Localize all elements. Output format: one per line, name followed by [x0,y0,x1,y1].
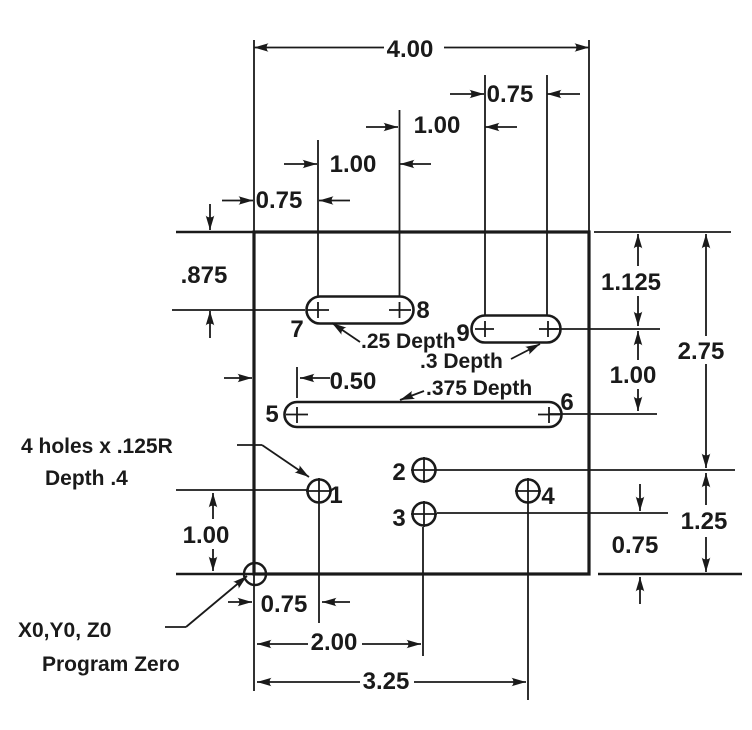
wire bottom edge left extension [176,573,254,575]
svg-text:2.00: 2.00 [311,629,358,656]
wire hole4 vertical extension below [527,503,529,700]
wire top edge left extension [176,231,254,233]
crosshair hole 1 [306,478,332,504]
dimension 3.25 line [257,681,360,683]
svg-text:1: 1 [329,482,342,509]
svg-text:1.125: 1.125 [601,269,661,296]
svg-text:2.75: 2.75 [678,338,725,365]
svg-text:0.75: 0.75 [256,187,303,214]
dimension 2.00 line [257,643,308,645]
svg-text:8: 8 [416,297,429,324]
leader 4holes note [237,444,262,446]
wire slot9 centerline right extension [548,328,660,330]
program zero circle [244,563,266,585]
crosshair hole 4 [515,478,541,504]
slot 5-6 obround [285,402,562,427]
crosshair hole 2 [411,457,437,483]
wire top edge right extension [594,231,731,233]
svg-text:1.00: 1.00 [610,362,657,389]
svg-text:4 holes x .125R: 4 holes x .125R [21,435,173,458]
crosshair slot end 8 [389,302,411,318]
wire hole1 vertical extension below [318,504,320,623]
slot 9 obround [472,316,561,343]
crosshair slot end 9 left [475,321,494,337]
wire slot6 centerline right extension [549,413,657,415]
svg-text:5: 5 [265,401,278,428]
svg-text:0.75: 0.75 [487,81,534,108]
hole 1 [308,480,331,503]
svg-text:X0,Y0, Z0: X0,Y0, Z0 [18,619,111,642]
dimension 0.75 bottom arrows [228,601,252,603]
wire slot8 center vertical extension [399,110,401,297]
svg-text:0.75: 0.75 [612,532,659,559]
svg-text:.3 Depth: .3 Depth [420,350,503,373]
part outline [254,232,589,574]
wire slot9 left center vertical extension [484,75,486,316]
dimension 0.75 left arrows [222,200,253,202]
dimension 4.00 line [254,47,384,49]
dimension 0.50 tick [296,367,298,398]
dimension 2.75 line [705,234,707,336]
crosshair slot end 9 right [539,321,558,337]
svg-text:0.50: 0.50 [330,368,377,395]
wire left-edge vertical extension below part [253,574,255,691]
crosshair slot end 6 [538,407,560,423]
wire left-edge vertical extension above part [253,40,255,232]
svg-text:4.00: 4.00 [387,36,434,63]
svg-text:6: 6 [560,389,573,416]
svg-text:3: 3 [392,505,405,532]
hole 3 [413,503,436,526]
leader .375 depth [400,391,424,400]
dimension 0.75 right arrows [639,484,641,511]
wire slot7 center vertical extension [317,140,319,297]
svg-text:7: 7 [290,316,303,343]
dimension 1.125 line [637,234,639,266]
hole 4 [517,480,540,503]
dimension 1.00 left line [212,493,214,519]
leader .25 depth [332,323,360,342]
leader .3 depth [511,344,540,359]
svg-text:Program Zero: Program Zero [42,653,180,676]
svg-text:1.25: 1.25 [681,508,728,535]
dimension 1.00 upper arrows [366,126,398,128]
svg-text:4: 4 [541,483,555,510]
wire right-edge vertical extension above part [588,40,590,232]
leader program zero [165,626,186,628]
crosshair hole 3 [411,501,437,527]
crosshair slot end 7 [307,302,329,318]
hole 2 [413,459,436,482]
crosshair slot end 5 [286,407,308,423]
svg-text:3.25: 3.25 [363,668,410,695]
svg-text:1.00: 1.00 [183,522,230,549]
svg-text:.375 Depth: .375 Depth [426,377,532,400]
dimension 0.75 top arrows [450,93,484,95]
dimension 1.00 right line [637,331,639,360]
wire hole1 centerline left extension [176,489,307,491]
wire bottom edge right extension [598,573,742,576]
wire slot7-8 centerline left extension [172,309,305,311]
dimension 0.50 arrows [224,377,252,379]
wire hole3 centerline right extension [437,512,668,514]
wire slot9 right center vertical extension [546,75,548,316]
slot 7-8 obround [307,297,414,324]
svg-text:Depth .4: Depth .4 [45,467,128,490]
dimension .875 arrows [209,204,211,230]
svg-text:.875: .875 [181,262,228,289]
dimension 1.00 lower arrows [284,163,317,165]
svg-text:0.75: 0.75 [261,591,308,618]
svg-text:1.00: 1.00 [330,151,377,178]
dimension 1.25 line [705,473,707,505]
svg-text:9: 9 [456,320,469,347]
svg-text:2: 2 [392,459,405,486]
svg-text:1.00: 1.00 [414,112,461,139]
wire hole3 vertical extension below [422,527,424,656]
wire hole2 centerline right extension [436,469,735,471]
